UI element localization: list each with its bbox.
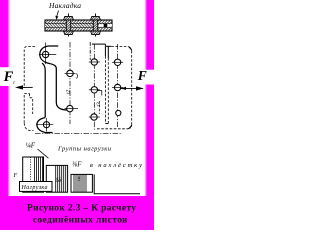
svg-text:F: F <box>13 173 18 179</box>
svg-text:F: F <box>137 68 147 83</box>
svg-text:δ: δ <box>78 177 81 183</box>
svg-text:t3: t3 <box>96 102 102 107</box>
svg-text:⅜F: ⅜F <box>72 161 82 169</box>
svg-text:F: F <box>3 69 14 85</box>
svg-text:соединённых листов: соединённых листов <box>33 216 128 226</box>
svg-text:в нахлёстку: в нахлёстку <box>90 162 142 169</box>
svg-text:Накладка: Накладка <box>48 1 81 10</box>
svg-text:Группы нагрузки: Группы нагрузки <box>57 145 112 152</box>
svg-text:Рисунок 2.3 – К расчету: Рисунок 2.3 – К расчету <box>27 204 136 214</box>
svg-text:t2: t2 <box>66 89 72 94</box>
svg-text:δδ: δδ <box>56 178 62 184</box>
svg-text:¼F: ¼F <box>26 142 36 150</box>
svg-text:Нагрузка: Нагрузка <box>21 185 48 191</box>
